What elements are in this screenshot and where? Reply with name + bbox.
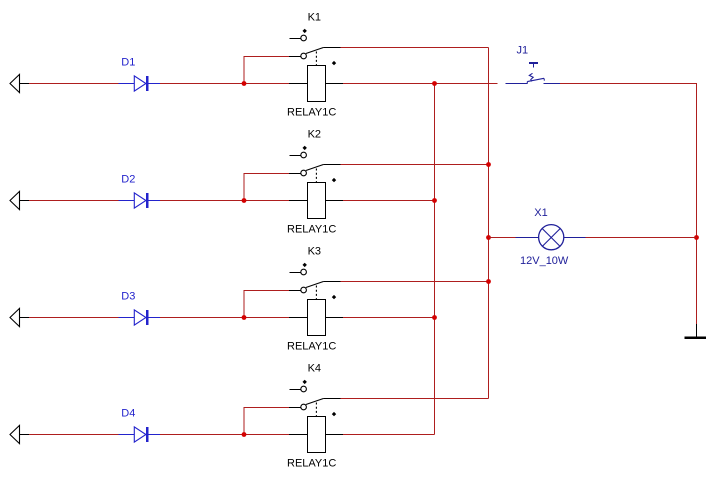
wire coil K3 output	[343, 317, 435, 319]
junction	[242, 315, 247, 320]
wire junction riser	[244, 57, 289, 84]
wire armature bus vertical	[488, 48, 490, 399]
wire armature K3 output	[341, 281, 489, 283]
wire coil K1 output	[343, 83, 498, 85]
svg-text:D2: D2	[121, 174, 135, 186]
junction	[432, 315, 437, 320]
svg-text:D3: D3	[121, 291, 135, 303]
svg-text:J1: J1	[517, 44, 529, 56]
junction	[242, 198, 247, 203]
relay K1 contact	[289, 29, 341, 59]
wire right bus to ground	[696, 238, 698, 325]
svg-text:K1: K1	[308, 12, 321, 24]
junction	[486, 279, 491, 284]
wire	[160, 434, 289, 436]
wire coil K2 output	[343, 200, 435, 202]
relay K3 coil	[289, 286, 343, 336]
svg-text:D4: D4	[121, 408, 135, 420]
lamp X1	[516, 225, 586, 250]
wire armature K1 output	[341, 47, 489, 49]
ground	[685, 324, 707, 338]
wire J1 to right bus	[560, 84, 697, 238]
junction	[486, 235, 491, 240]
diode D2	[118, 193, 160, 208]
junction	[432, 81, 437, 86]
wire	[160, 317, 289, 319]
junction	[694, 235, 699, 240]
input terminal row 1	[10, 74, 29, 92]
diode D1	[118, 76, 160, 91]
diode D3	[118, 310, 160, 325]
relay K3 contact	[289, 263, 341, 293]
svg-text:RELAY1C: RELAY1C	[287, 107, 336, 119]
diode D4	[118, 427, 160, 442]
svg-text:RELAY1C: RELAY1C	[287, 341, 336, 353]
wire	[29, 434, 118, 436]
switch J1	[506, 63, 561, 84]
wire coil bus vertical	[434, 84, 436, 435]
wire	[29, 200, 118, 202]
svg-text:RELAY1C: RELAY1C	[287, 224, 336, 236]
wire coil K4 output	[343, 434, 435, 436]
wire	[160, 200, 289, 202]
wire	[160, 83, 289, 85]
relay K4 contact	[289, 380, 341, 410]
wire	[29, 83, 118, 85]
junction	[432, 198, 437, 203]
svg-text:K4: K4	[308, 363, 321, 375]
input terminal row 3	[10, 308, 29, 326]
wire lamp left	[489, 237, 516, 239]
wire lamp right	[586, 237, 697, 239]
svg-text:K3: K3	[308, 246, 321, 258]
svg-text:RELAY1C: RELAY1C	[287, 458, 336, 470]
wire armature K2 output	[341, 164, 489, 166]
wire junction riser	[244, 174, 289, 201]
svg-text:X1: X1	[534, 207, 547, 219]
wire	[29, 317, 118, 319]
svg-text:D1: D1	[121, 57, 135, 69]
svg-text:12V_10W: 12V_10W	[520, 255, 569, 267]
svg-text:K2: K2	[308, 129, 321, 141]
relay K1 coil	[289, 52, 343, 102]
relay K2 contact	[289, 146, 341, 176]
junction	[486, 162, 491, 167]
junction	[242, 432, 247, 437]
input terminal row 4	[10, 425, 29, 443]
wire junction riser	[244, 291, 289, 318]
wire armature K4 output	[341, 398, 489, 400]
junction	[242, 81, 247, 86]
relay K2 coil	[289, 169, 343, 219]
input terminal row 2	[10, 191, 29, 209]
wire junction riser	[244, 408, 289, 435]
relay K4 coil	[289, 403, 343, 453]
